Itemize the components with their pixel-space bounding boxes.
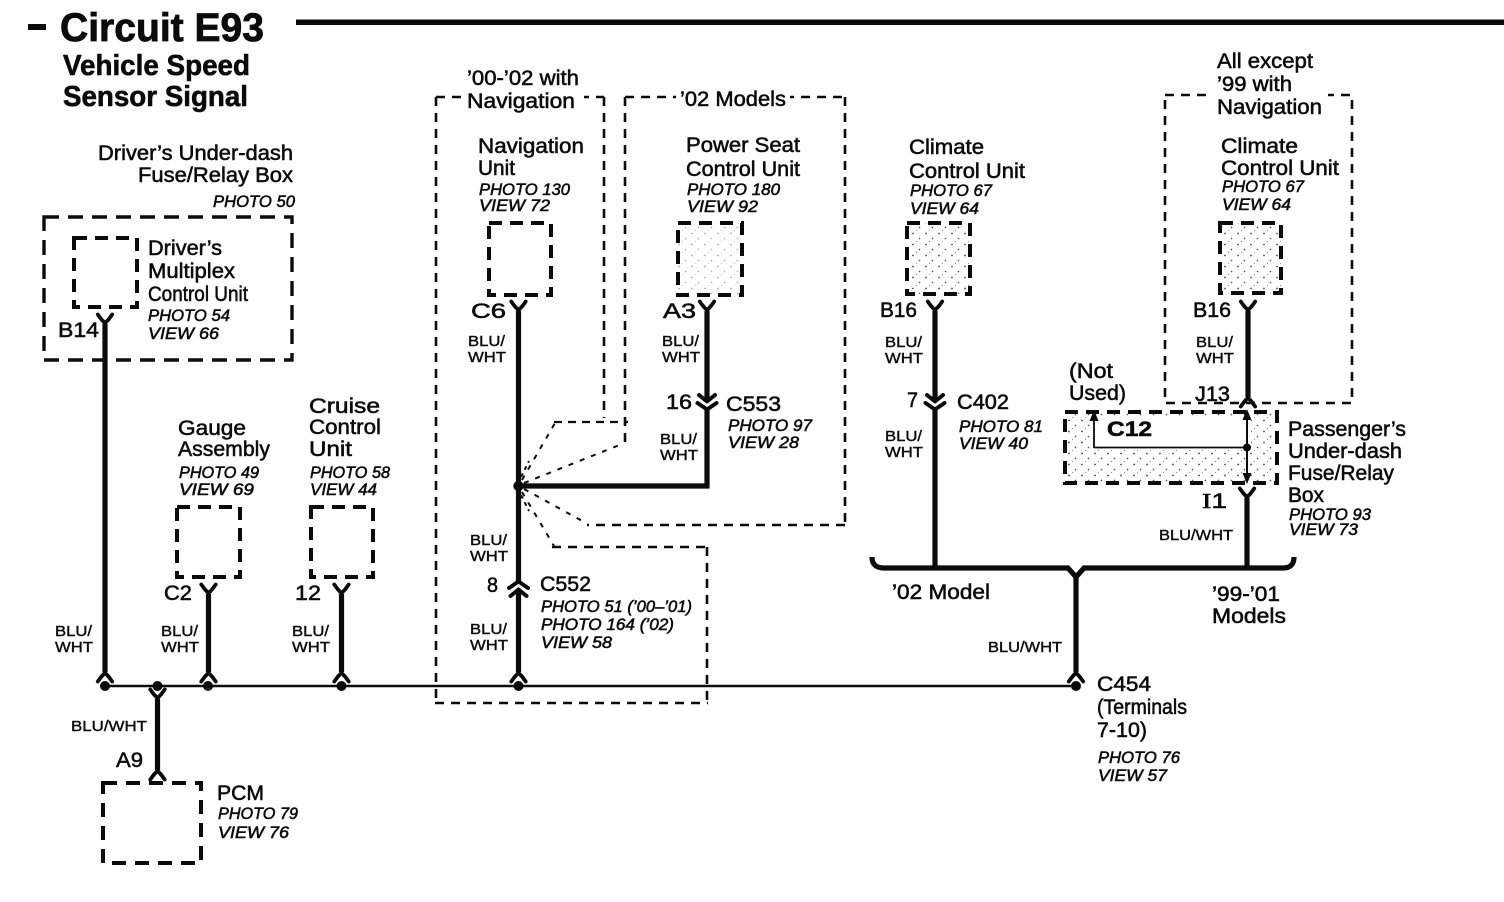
svg-text:PHOTO 54: PHOTO 54 <box>148 307 230 325</box>
svg-text:C553: C553 <box>726 393 781 416</box>
svg-text:VIEW 44: VIEW 44 <box>310 481 377 499</box>
svg-text:WHT: WHT <box>470 637 508 654</box>
svg-text:8: 8 <box>487 574 498 597</box>
svg-text:’02 Model: ’02 Model <box>892 581 990 604</box>
svg-text:B14: B14 <box>58 319 99 342</box>
svg-text:BLU/: BLU/ <box>1196 334 1234 351</box>
svg-text:WHT: WHT <box>885 444 923 461</box>
svg-text:WHT: WHT <box>662 349 700 366</box>
svg-text:Fuse/Relay: Fuse/Relay <box>1288 462 1394 485</box>
svg-text:BLU/: BLU/ <box>161 623 199 640</box>
svg-text:VIEW 57: VIEW 57 <box>1098 767 1168 785</box>
svg-text:VIEW 92: VIEW 92 <box>687 198 758 216</box>
svg-text:BLU/: BLU/ <box>470 532 508 549</box>
svg-text:Driver’s: Driver’s <box>148 237 222 260</box>
svg-text:VIEW 69: VIEW 69 <box>179 481 254 499</box>
svg-text:Box: Box <box>1288 484 1324 507</box>
svg-text:PHOTO 50: PHOTO 50 <box>213 193 296 211</box>
svg-text:VIEW 58: VIEW 58 <box>541 634 613 652</box>
svg-text:Cruise: Cruise <box>309 395 380 418</box>
svg-text:Unit: Unit <box>309 438 352 461</box>
svg-text:(Terminals: (Terminals <box>1097 696 1187 719</box>
svg-text:Circuit E93: Circuit E93 <box>60 6 264 50</box>
svg-text:Power Seat: Power Seat <box>686 134 800 157</box>
svg-text:Models: Models <box>1212 605 1286 628</box>
svg-text:Control Unit: Control Unit <box>148 283 248 306</box>
svg-text:BLU/WHT: BLU/WHT <box>988 639 1062 656</box>
svg-text:VIEW 73: VIEW 73 <box>1289 521 1359 539</box>
svg-text:Driver’s Under-dash: Driver’s Under-dash <box>98 142 293 165</box>
svg-text:WHT: WHT <box>660 447 698 464</box>
svg-text:B16: B16 <box>880 299 917 322</box>
svg-text:WHT: WHT <box>292 639 330 656</box>
svg-text:Sensor Signal: Sensor Signal <box>63 81 248 113</box>
svg-text:BLU/WHT: BLU/WHT <box>71 718 147 735</box>
svg-text:Multiplex: Multiplex <box>148 260 236 283</box>
svg-text:VIEW 76: VIEW 76 <box>218 824 290 842</box>
svg-text:PHOTO 51 (’00–’01): PHOTO 51 (’00–’01) <box>541 598 692 616</box>
svg-text:BLU/WHT: BLU/WHT <box>1159 527 1233 544</box>
svg-text:BLU/: BLU/ <box>660 431 698 448</box>
svg-text:J13: J13 <box>1195 383 1230 406</box>
svg-text:I1: I1 <box>1202 489 1227 513</box>
svg-text:WHT: WHT <box>161 639 199 656</box>
svg-text:16: 16 <box>666 391 692 414</box>
svg-text:BLU/: BLU/ <box>468 333 506 350</box>
svg-text:BLU/: BLU/ <box>885 428 923 445</box>
svg-text:VIEW 72: VIEW 72 <box>479 197 550 215</box>
svg-text:All except: All except <box>1217 50 1313 73</box>
svg-text:VIEW 40: VIEW 40 <box>959 435 1029 453</box>
svg-text:BLU/: BLU/ <box>470 621 508 638</box>
svg-text:PHOTO 81: PHOTO 81 <box>959 418 1043 436</box>
svg-text:’00-’02 with: ’00-’02 with <box>467 67 579 90</box>
svg-text:C2: C2 <box>164 582 192 605</box>
svg-text:WHT: WHT <box>470 548 508 565</box>
svg-text:12: 12 <box>295 582 321 605</box>
svg-text:Navigation: Navigation <box>478 135 584 158</box>
svg-text:Under-dash: Under-dash <box>1288 440 1402 463</box>
svg-text:’99-’01: ’99-’01 <box>1212 583 1280 606</box>
svg-text:PHOTO 49: PHOTO 49 <box>179 464 259 482</box>
svg-text:7: 7 <box>907 389 918 412</box>
svg-text:PHOTO 58: PHOTO 58 <box>310 464 391 482</box>
svg-text:C402: C402 <box>957 391 1009 414</box>
svg-text:PHOTO 67: PHOTO 67 <box>1222 178 1305 196</box>
svg-text:PHOTO 97: PHOTO 97 <box>728 417 813 435</box>
svg-text:C454: C454 <box>1097 673 1151 696</box>
svg-text:VIEW 66: VIEW 66 <box>148 325 220 343</box>
svg-text:Gauge: Gauge <box>178 417 246 440</box>
svg-text:VIEW 64: VIEW 64 <box>910 200 979 218</box>
svg-text:Used): Used) <box>1069 382 1126 405</box>
svg-text:Climate: Climate <box>909 136 984 159</box>
svg-text:BLU/: BLU/ <box>292 623 330 640</box>
svg-text:WHT: WHT <box>885 350 923 367</box>
svg-text:PCM: PCM <box>217 782 264 805</box>
svg-text:Fuse/Relay Box: Fuse/Relay Box <box>138 164 294 187</box>
svg-text:Passenger’s: Passenger’s <box>1288 418 1406 441</box>
svg-text:’02 Models: ’02 Models <box>680 88 786 111</box>
svg-text:C6: C6 <box>471 300 506 323</box>
svg-text:VIEW 28: VIEW 28 <box>728 434 800 452</box>
svg-text:WHT: WHT <box>55 639 93 656</box>
svg-text:BLU/: BLU/ <box>885 334 923 351</box>
svg-text:Control Unit: Control Unit <box>686 158 800 181</box>
svg-text:7-10): 7-10) <box>1097 719 1147 742</box>
svg-text:WHT: WHT <box>468 349 506 366</box>
svg-text:Unit: Unit <box>478 157 515 180</box>
svg-text:PHOTO 79: PHOTO 79 <box>218 805 298 823</box>
svg-text:A9: A9 <box>116 749 143 772</box>
svg-text:VIEW 64: VIEW 64 <box>1222 196 1291 214</box>
svg-text:Control Unit: Control Unit <box>1221 157 1339 180</box>
svg-text:PHOTO 164 (’02): PHOTO 164 (’02) <box>541 616 674 634</box>
svg-text:BLU/: BLU/ <box>55 623 93 640</box>
svg-text:Assembly: Assembly <box>178 438 270 461</box>
svg-text:A3: A3 <box>663 300 696 323</box>
svg-text:C552: C552 <box>540 573 591 596</box>
svg-text:B16: B16 <box>1193 299 1231 322</box>
svg-text:WHT: WHT <box>1196 350 1234 367</box>
svg-text:Navigation: Navigation <box>1217 96 1322 119</box>
svg-text:Climate: Climate <box>1221 135 1298 158</box>
svg-text:’99 with: ’99 with <box>1217 73 1292 96</box>
svg-text:PHOTO 67: PHOTO 67 <box>910 182 993 200</box>
svg-text:PHOTO 180: PHOTO 180 <box>687 181 781 199</box>
svg-text:Control Unit: Control Unit <box>909 160 1025 183</box>
svg-text:(Not: (Not <box>1069 360 1113 383</box>
svg-text:Control: Control <box>309 416 381 439</box>
svg-text:Vehicle Speed: Vehicle Speed <box>63 50 250 82</box>
svg-text:PHOTO 76: PHOTO 76 <box>1098 749 1181 767</box>
svg-text:Navigation: Navigation <box>467 90 575 113</box>
svg-text:BLU/: BLU/ <box>662 333 700 350</box>
svg-text:C12: C12 <box>1107 418 1152 441</box>
